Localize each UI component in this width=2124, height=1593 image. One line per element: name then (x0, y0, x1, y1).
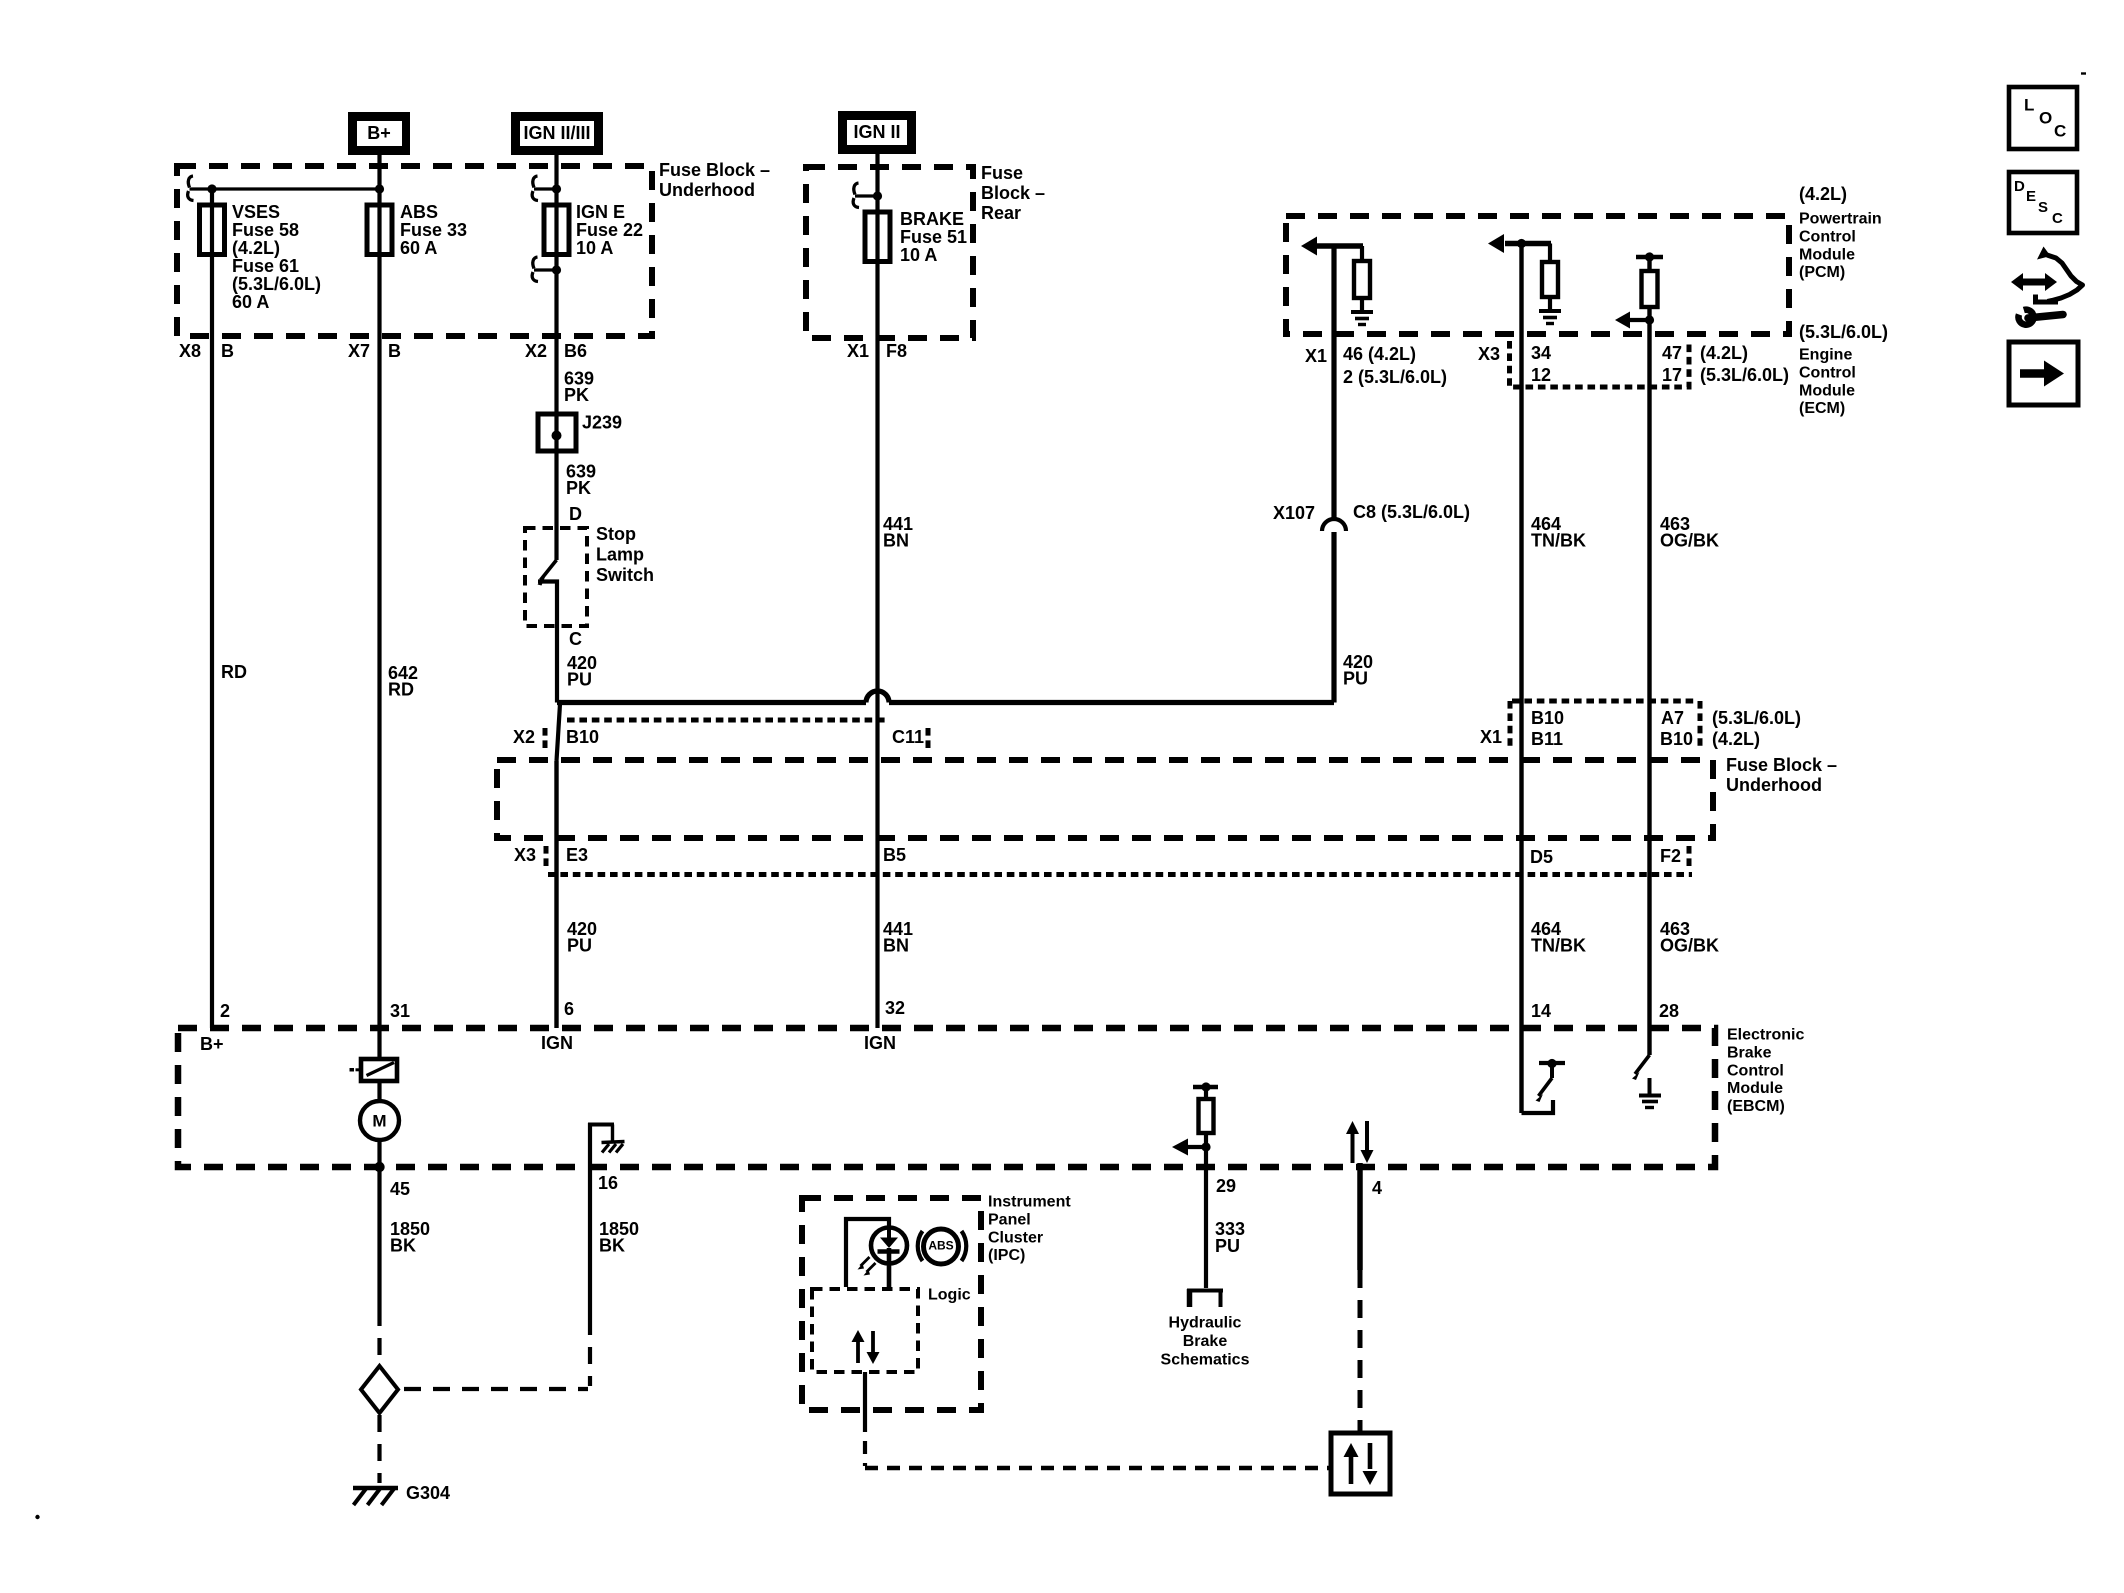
svg-text:B11: B11 (1531, 729, 1563, 749)
svg-text:E: E (2026, 188, 2036, 205)
icon schematic arrow-wrench (2011, 273, 2057, 291)
electronic brake control module box (EBCM) (178, 1028, 1715, 1167)
svg-text:Module: Module (1799, 382, 1855, 399)
fuse ABS F33 (367, 205, 392, 255)
indicator lightning arrows (861, 1257, 870, 1266)
connector row X1 (right) (1512, 699, 1697, 704)
wire 420 PU into connector B10 (557, 704, 561, 761)
ABS indicator lamp (846, 1219, 889, 1287)
fuse BRAKE F51 (865, 212, 890, 262)
svg-text:Block –: Block – (981, 183, 1045, 203)
svg-text:X3: X3 (514, 845, 536, 865)
svg-text:Control: Control (1727, 1062, 1784, 1079)
svg-text:(ECM): (ECM) (1799, 400, 1845, 417)
svg-text:(4.2L): (4.2L) (1799, 184, 1847, 204)
node VSES junction (207, 184, 216, 193)
svg-text:S: S (2038, 199, 2048, 216)
svg-text:17: 17 (1662, 365, 1682, 385)
svg-text:47: 47 (1662, 343, 1682, 363)
power terminal B+ (348, 112, 410, 155)
fuse IGN-E F22 (544, 205, 569, 255)
svg-text:J239: J239 (582, 413, 622, 433)
svg-text:D5: D5 (1530, 847, 1553, 867)
svg-text:Brake: Brake (1183, 1333, 1228, 1350)
svg-text:46 (4.2L): 46 (4.2L) (1343, 344, 1416, 364)
svg-text:45: 45 (390, 1179, 410, 1199)
svg-text:X1: X1 (847, 341, 869, 361)
svg-text:Fuse 61: Fuse 61 (232, 256, 299, 276)
svg-text:PK: PK (564, 385, 589, 405)
wire VSES-ABS bus (212, 187, 380, 190)
node BRAKE junction (873, 191, 882, 200)
resistor at EBCM pin 29 (1193, 1085, 1218, 1089)
arrow at pin 29 (1201, 1142, 1210, 1151)
svg-text:Fuse 33: Fuse 33 (400, 220, 467, 240)
icon forward arrow (2009, 342, 2078, 405)
svg-text:F8: F8 (886, 341, 907, 361)
instrument panel cluster box (IPC) (802, 1198, 981, 1410)
svg-text:PK: PK (566, 478, 591, 498)
svg-text:60 A: 60 A (400, 238, 437, 258)
svg-text:O: O (2039, 108, 2052, 127)
wire PCM pin 34/12 down (464) (1519, 244, 1523, 1114)
ground G304 (353, 1486, 398, 1490)
dashed wire diamond to G304 (377, 1415, 381, 1483)
svg-text:PU: PU (567, 670, 592, 690)
svg-text:X1: X1 (1305, 346, 1327, 366)
hydraulic valve box with arrows (1331, 1433, 1390, 1494)
svg-text:X107: X107 (1273, 503, 1315, 523)
svg-text:10 A: 10 A (576, 238, 613, 258)
power terminal IGN II (838, 111, 916, 154)
svg-text:B+: B+ (367, 123, 391, 143)
chassis ground at pin 16 (inside EBCM) (588, 1123, 592, 1167)
PCM resistor at pin 47/17 with top bar (1636, 255, 1663, 259)
stop lamp switch blade (554, 255, 558, 561)
svg-text:(PCM): (PCM) (1799, 264, 1845, 281)
fuse VSES F58 (210, 205, 214, 255)
wire pin 47/17 down (463) (1647, 307, 1651, 1055)
svg-text:Control: Control (1799, 365, 1856, 382)
pump motor M (377, 1079, 381, 1101)
svg-text:Fuse 51: Fuse 51 (900, 227, 967, 247)
splice J239 (538, 414, 576, 451)
svg-text:Brake: Brake (1727, 1045, 1772, 1062)
valve arrows at EBCM pin 4 (1351, 1133, 1355, 1163)
node X3 junction (1517, 239, 1526, 248)
dashed wire diamond to pin16 leg (404, 1387, 588, 1391)
stop lamp switch lower contact (538, 582, 557, 627)
svg-text:16: 16 (598, 1173, 618, 1193)
svg-text:10 A: 10 A (900, 245, 937, 265)
svg-text:IGN II/III: IGN II/III (523, 123, 590, 143)
svg-text:Stop: Stop (596, 524, 636, 544)
svg-text:Rear: Rear (981, 203, 1021, 223)
svg-text:X2: X2 (513, 727, 535, 747)
svg-text:BN: BN (883, 936, 909, 956)
svg-text:TN/BK: TN/BK (1531, 936, 1586, 956)
svg-text:B5: B5 (883, 845, 906, 865)
hydraulic brake bracket (1187, 1289, 1193, 1307)
svg-text:OG/BK: OG/BK (1660, 531, 1719, 551)
wire BRAKE 441 BN to EBCM pin 32 (875, 261, 879, 1028)
icon LOC (2009, 87, 2077, 149)
fuse block underhood box (177, 166, 652, 336)
svg-text:B10: B10 (1660, 729, 1693, 749)
inline connector X107 (1322, 519, 1346, 531)
svg-text:2 (5.3L/6.0L): 2 (5.3L/6.0L) (1343, 367, 1447, 387)
ECM box (1510, 341, 1690, 387)
wire 1850 BK from pin 45 (377, 1167, 381, 1309)
svg-text:B+: B+ (200, 1034, 224, 1054)
wire ABS to EBCM pin 31 (377, 255, 381, 1060)
icon DESC (2009, 172, 2077, 233)
svg-text:D: D (2014, 178, 2025, 195)
wire IGN II to BRAKE fuse (875, 153, 879, 262)
svg-text:(IPC): (IPC) (988, 1247, 1025, 1264)
wire 333 PU from pin 29 (1204, 1167, 1208, 1288)
svg-text:F2: F2 (1660, 846, 1681, 866)
pump motor relay contact (361, 1059, 397, 1081)
svg-text:D: D (569, 504, 582, 524)
svg-text:BK: BK (390, 1236, 416, 1256)
PCM pin X3 arrow (1505, 241, 1551, 247)
svg-text:PU: PU (567, 936, 592, 956)
node motor ground junction (374, 1162, 384, 1172)
svg-text:Switch: Switch (596, 565, 654, 585)
stray mark bottom left (35, 1515, 39, 1519)
svg-text:IGN II: IGN II (853, 122, 900, 142)
svg-text:14: 14 (1531, 1001, 1551, 1021)
power terminal IGN II/III (511, 112, 603, 155)
node IGN E lower junction (552, 265, 561, 274)
brake pressure switch at pin 14 (1522, 1100, 1554, 1113)
ground in PCM at X3 (1548, 297, 1552, 310)
svg-text:12: 12 (1531, 365, 1551, 385)
signal ground at pin 28 (1648, 1078, 1652, 1095)
wire from logic box down (863, 1372, 867, 1419)
wire 420 PU below switch (555, 626, 559, 703)
svg-text:ABS: ABS (928, 1239, 953, 1253)
svg-text:(4.2L): (4.2L) (1700, 343, 1748, 363)
svg-text:E3: E3 (566, 845, 588, 865)
ground in PCM at X1 (1360, 298, 1364, 311)
svg-text:G304: G304 (406, 1483, 450, 1503)
svg-text:29: 29 (1216, 1176, 1236, 1196)
wire IGN II/III to IGN E fuse (554, 155, 558, 255)
svg-text:B10: B10 (1531, 708, 1564, 728)
svg-text:ABS: ABS (400, 202, 438, 222)
stop lamp switch box (525, 528, 587, 626)
wire from EBCM pin 4 down (1357, 1163, 1363, 1270)
powertrain control module box (PCM) (1286, 216, 1789, 334)
wire 420 PU horizontal (557, 700, 866, 705)
svg-text:IGN: IGN (864, 1033, 896, 1053)
svg-text:Lamp: Lamp (596, 545, 644, 565)
svg-text:A7: A7 (1661, 708, 1684, 728)
svg-text:PU: PU (1343, 669, 1368, 689)
svg-text:60 A: 60 A (232, 292, 269, 312)
svg-text:BK: BK (599, 1236, 625, 1256)
svg-text:(5.3L/6.0L): (5.3L/6.0L) (1799, 322, 1888, 342)
logic box (812, 1289, 918, 1372)
connector row X2 (567, 718, 886, 723)
svg-text:B: B (388, 341, 401, 361)
svg-text:BN: BN (883, 531, 909, 551)
wire 1850 BK from pin 16 (588, 1167, 592, 1318)
svg-text:(5.3L/6.0L): (5.3L/6.0L) (1700, 365, 1789, 385)
wire X2 B10 to E3 (554, 761, 558, 1028)
svg-text:X3: X3 (1478, 344, 1500, 364)
splice diamond S-point (361, 1366, 398, 1413)
switch at pin 28 (1635, 1055, 1650, 1074)
svg-text:Logic: Logic (928, 1287, 971, 1304)
svg-text:2: 2 (220, 1001, 230, 1021)
svg-text:OG/BK: OG/BK (1660, 936, 1719, 956)
svg-text:L: L (2024, 95, 2034, 114)
PCM internal resistor R-X1 (1360, 246, 1364, 261)
svg-text:C8 (5.3L/6.0L): C8 (5.3L/6.0L) (1353, 502, 1470, 522)
svg-text:Schematics: Schematics (1161, 1352, 1250, 1369)
svg-text:6: 6 (564, 999, 574, 1019)
svg-text:Module: Module (1799, 246, 1855, 263)
svg-text:Module: Module (1727, 1080, 1783, 1097)
PCM pin X1 arrow (1316, 243, 1363, 249)
svg-text:B: B (221, 341, 234, 361)
svg-text:RD: RD (388, 680, 414, 700)
fuse block underhood middle box (497, 760, 1713, 838)
svg-text:(5.3L/6.0L): (5.3L/6.0L) (232, 274, 321, 294)
logic arrows (856, 1340, 860, 1363)
svg-text:TN/BK: TN/BK (1531, 531, 1586, 551)
svg-text:B10: B10 (566, 727, 599, 747)
svg-text:X2: X2 (525, 341, 547, 361)
svg-text:C: C (2054, 121, 2066, 140)
stray mark top right (2081, 72, 2086, 74)
svg-text:Hydraulic: Hydraulic (1169, 1315, 1242, 1332)
wire 420 PU below X107 (1331, 532, 1336, 703)
svg-text:(5.3L/6.0L): (5.3L/6.0L) (1712, 708, 1801, 728)
wire B+ to ABS fuse (377, 155, 381, 255)
svg-text:Fuse 58: Fuse 58 (232, 220, 299, 240)
arrow at pin 47/17 (1629, 318, 1650, 322)
svg-text:C: C (569, 629, 582, 649)
svg-text:(4.2L): (4.2L) (232, 238, 280, 258)
svg-text:X7: X7 (348, 341, 370, 361)
svg-text:Underhood: Underhood (1726, 775, 1822, 795)
wire VSES to EBCM pin 2 (210, 255, 214, 1028)
svg-text:4: 4 (1372, 1178, 1382, 1198)
svg-text:(EBCM): (EBCM) (1727, 1098, 1785, 1115)
svg-text:Control: Control (1799, 229, 1856, 246)
svg-text:IGN: IGN (541, 1033, 573, 1053)
PCM internal resistor R-X3 (1548, 244, 1552, 263)
svg-text:31: 31 (390, 1001, 410, 1021)
svg-text:VSES: VSES (232, 202, 280, 222)
connector row X3 (548, 872, 1692, 877)
svg-text:(4.2L): (4.2L) (1712, 729, 1760, 749)
svg-text:IGN E: IGN E (576, 202, 625, 222)
node IGN E junction (552, 184, 561, 193)
ABS warning symbol (924, 1229, 959, 1264)
svg-text:PU: PU (1215, 1236, 1240, 1256)
svg-text:Cluster: Cluster (988, 1229, 1043, 1246)
svg-text:B6: B6 (564, 341, 587, 361)
svg-text:Fuse: Fuse (981, 163, 1023, 183)
svg-text:Instrument: Instrument (988, 1194, 1071, 1211)
svg-text:Fuse 22: Fuse 22 (576, 220, 643, 240)
dashed wire IPC to valve box (865, 1466, 1331, 1470)
svg-text:Panel: Panel (988, 1212, 1031, 1229)
svg-text:Fuse Block –: Fuse Block – (1726, 755, 1837, 775)
svg-text:32: 32 (885, 998, 905, 1018)
node ABS junction (375, 184, 384, 193)
svg-text:C: C (2052, 210, 2063, 227)
svg-text:28: 28 (1659, 1001, 1679, 1021)
wire PCM pin 46/2 down (420 PU) (1331, 246, 1336, 520)
svg-text:Powertrain: Powertrain (1799, 211, 1882, 228)
fuse block rear box (806, 167, 973, 338)
svg-text:X1: X1 (1480, 727, 1502, 747)
svg-text:34: 34 (1531, 343, 1551, 363)
svg-text:X8: X8 (179, 341, 201, 361)
svg-text:RD: RD (221, 662, 247, 682)
svg-text:Underhood: Underhood (659, 180, 755, 200)
svg-text:Electronic: Electronic (1727, 1027, 1804, 1044)
svg-text:C11: C11 (892, 727, 924, 747)
svg-text:BRAKE: BRAKE (900, 209, 964, 229)
svg-text:Engine: Engine (1799, 347, 1852, 364)
svg-text:Fuse Block –: Fuse Block – (659, 160, 770, 180)
svg-text:M: M (372, 1111, 386, 1130)
